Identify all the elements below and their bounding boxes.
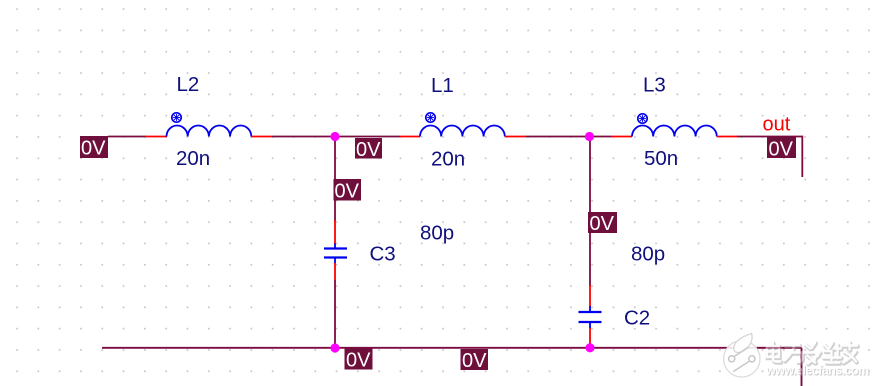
value 20n (L1) (431, 148, 465, 171)
node label out (763, 114, 791, 136)
net label 0V on C2 branch (588, 212, 617, 235)
svg-text:L3: L3 (643, 74, 666, 97)
wire: node B to L3 (589, 136, 612, 138)
wire: input node to L2 pin1 (108, 136, 146, 138)
svg-text:0V: 0V (346, 350, 371, 372)
wire: node B down to C2 (589, 137, 591, 287)
junction C3 at bottom rail (330, 343, 339, 352)
svg-text:80p: 80p (631, 243, 665, 266)
inductor L2 (145, 113, 273, 137)
wire: L1 to node B (526, 136, 589, 138)
net label 0V at input (80, 136, 108, 160)
svg-text:0V: 0V (769, 139, 794, 161)
svg-text:0V: 0V (356, 139, 381, 161)
net label 0V bottom rail 1 (345, 349, 373, 372)
svg-text:L2: L2 (177, 73, 200, 96)
label C2 (624, 307, 650, 330)
value 80p (C2) (631, 243, 665, 266)
wire: bottom rail seen through watermark (757, 347, 801, 349)
label L3 (643, 74, 666, 97)
value 50n (L3) (644, 147, 678, 170)
svg-text:50n: 50n (644, 147, 678, 170)
net label 0V at node A (355, 138, 382, 161)
label L1 (431, 74, 454, 97)
svg-text:out: out (763, 114, 791, 136)
value 20n (L2) (176, 147, 210, 170)
svg-text:0V: 0V (81, 138, 106, 160)
svg-text:www.elecfans.com: www.elecfans.com (765, 364, 869, 378)
net label 0V at out node (767, 137, 796, 161)
net label 0V on C3 branch (334, 179, 362, 203)
wire: bottom right vertical seen through watermark (801, 348, 803, 386)
svg-text:L1: L1 (431, 74, 454, 97)
junction node B (585, 132, 594, 141)
svg-text:0V: 0V (335, 181, 360, 203)
wire: bottom rail (102, 347, 802, 349)
watermark chinese text 电子发烧友 (ghost strokes) (767, 343, 858, 365)
capacitor C3 (324, 220, 347, 281)
capacitor C2 (579, 285, 602, 344)
wire: L3 to out node with stub down (737, 137, 802, 178)
svg-text:20n: 20n (431, 148, 465, 171)
watermark logo circle (724, 334, 760, 377)
value 80p (C3) (420, 222, 454, 245)
watermark url text www.elecfans.com (765, 364, 870, 379)
svg-text:0V: 0V (462, 350, 487, 372)
svg-text:C3: C3 (370, 243, 396, 266)
label C3 (370, 243, 396, 266)
inductor L1 (400, 113, 527, 137)
svg-text:C2: C2 (624, 307, 650, 330)
svg-text:0V: 0V (590, 213, 615, 235)
junction C2 at bottom rail (585, 343, 594, 352)
svg-text:80p: 80p (420, 222, 454, 245)
wire: bottom right vertical (801, 348, 803, 386)
inductor L3 (611, 114, 738, 137)
net label 0V bottom rail 2 (461, 349, 489, 372)
wire: L2 to node A (272, 136, 400, 138)
svg-text:20n: 20n (176, 147, 210, 170)
wire: node A down to C3 (334, 137, 336, 222)
label L2 (177, 73, 200, 96)
junction node A (330, 132, 339, 141)
wire: C3 to bottom rail (334, 280, 336, 348)
